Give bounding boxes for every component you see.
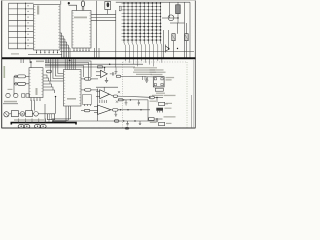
- wire drop b: [34, 101, 36, 111]
- resistor R2: [172, 34, 175, 41]
- resistor R3: [185, 34, 188, 41]
- wire mid right v6: [177, 23, 179, 34]
- text under: [152, 95, 163, 96]
- wire over U5B: [96, 86, 118, 88]
- AC plug P1: [4, 112, 9, 117]
- resistor R15 oval: [113, 109, 119, 112]
- capacitor C10: [125, 100, 128, 105]
- wire bus upper: [60, 51, 194, 53]
- IC U1 pin ticks: [34, 6, 36, 8]
- text right of K1: [166, 77, 175, 78]
- wire U5C out: [111, 109, 150, 111]
- IC U4 bottom pins: [30, 98, 32, 101]
- wire bus thick: [2, 57, 196, 59]
- resistor R9 on bus: [98, 66, 103, 68]
- wire mid right v5: [173, 41, 175, 58]
- circle pin R7: [15, 75, 18, 78]
- text above bar: [14, 119, 44, 120]
- transistor Q1: [166, 45, 170, 53]
- capacitor cans C5 C6 C7 C8b: [18, 124, 24, 128]
- rectifier BR1: [26, 111, 33, 117]
- capacitor C8: [110, 72, 116, 75]
- op-amp U5A: [101, 70, 108, 77]
- IC U2 bottom pins: [73, 48, 75, 51]
- capacitor C13: [139, 121, 141, 125]
- resistor R4 right of U3: [85, 78, 92, 81]
- IC U3 body: [64, 70, 82, 107]
- op-amp U5C inputs: [94, 106, 98, 108]
- staircase wires into U3: [51, 59, 64, 81]
- capacitor C14 gnd: [114, 111, 117, 116]
- wire link right: [147, 100, 149, 121]
- wires power row: [9, 113, 11, 115]
- resistor R13 oval bottom: [114, 120, 119, 122]
- wire vertical net V3: [98, 48, 100, 58]
- border bottom: [2, 127, 196, 129]
- IC U4 top wire: [30, 62, 32, 68]
- wire vertical net V0: [95, 1, 97, 58]
- border top: [2, 0, 196, 2]
- wire U5C v: [97, 89, 99, 122]
- ground G1: [105, 78, 108, 83]
- IC U3 pin ticks: [64, 71, 66, 73]
- wire bus lower5: [45, 66, 135, 68]
- IC U4 pin ticks: [29, 70, 31, 72]
- connector J2 box: [47, 114, 54, 120]
- wire mid right v7: [186, 41, 188, 58]
- wire bundle U1-U3: [61, 33, 63, 58]
- connector P2 oval: [149, 96, 154, 99]
- resistor R10 oval: [116, 75, 121, 77]
- ground G3 under bus: [115, 68, 118, 75]
- text P3: [164, 116, 176, 117]
- wire vertical net V2: [94, 48, 96, 58]
- IC U4 body: [29, 68, 43, 98]
- crystal Y1: [69, 4, 77, 10]
- wire mid right v4: [168, 30, 170, 50]
- op-amp U5B inputs: [96, 90, 100, 92]
- IC U1 right pins: [60, 32, 62, 34]
- IC U2 pin ticks: [72, 12, 74, 14]
- node dot bus: [104, 67, 106, 69]
- text DB1: [165, 108, 172, 109]
- diode matrix D1-D80: [123, 2, 125, 43]
- IC U1 bottom pins: [36, 50, 38, 53]
- dark blob bottom: [125, 127, 130, 130]
- text U6: [166, 103, 172, 104]
- transformer T1 secondary: [34, 112, 39, 117]
- relay K1 box: [153, 77, 164, 87]
- op-amp U5C: [98, 105, 112, 114]
- IC U3 bottom wires: [52, 106, 66, 121]
- wire right v2: [184, 2, 186, 57]
- capacitor C12: [126, 121, 129, 126]
- op-amp U5B: [100, 90, 110, 99]
- wire right v9: [189, 2, 191, 57]
- trimmer marks: [116, 91, 120, 103]
- wire right v1: [169, 2, 171, 18]
- IC U2 right wires: [91, 13, 116, 15]
- IC U4 right fan wires: [43, 75, 47, 78]
- border right inner line 1: [193, 60, 195, 128]
- resistor R14 oval mid: [47, 70, 52, 73]
- capacitor C3 circle: [14, 93, 18, 97]
- dashed separator v1: [122, 62, 124, 128]
- node dot q2: [177, 48, 178, 49]
- node dot mid: [69, 60, 71, 62]
- dashed separator v2: [186, 62, 188, 128]
- transistor Q0 circle: [168, 15, 174, 21]
- component U7: [159, 122, 165, 125]
- small parts right of text: [143, 76, 148, 80]
- capacitor C4 circle: [6, 93, 10, 97]
- wire rail mid: [118, 99, 148, 101]
- wire vertical net V1: [115, 10, 117, 68]
- wire rail bottom: [52, 120, 158, 122]
- terminal stubs: [18, 119, 20, 123]
- dashed separator h1: [123, 61, 187, 63]
- capacitor C9 between: [100, 100, 107, 103]
- text block right: [150, 69, 164, 70]
- text small left: [8, 89, 13, 90]
- circle pin R8: [15, 82, 18, 85]
- wire mid right v8: [186, 23, 188, 34]
- IC U1 label text: [37, 6, 39, 15]
- resistor R7 left of U4: [18, 75, 26, 78]
- text P2: [164, 95, 176, 96]
- wire bus upper left seg: [28, 54, 62, 56]
- small box pair: [22, 94, 25, 97]
- node P3: [156, 118, 157, 119]
- wire stubs under bus: [20, 59, 22, 63]
- text vertical left border: [4, 66, 6, 78]
- text left mid: [4, 101, 17, 103]
- connector P3 box: [149, 118, 154, 121]
- border right: [194, 1, 196, 129]
- wire U5B top drop: [103, 87, 105, 91]
- dark component DB1: [156, 108, 163, 111]
- text on bus left: [11, 53, 19, 54]
- wire R1 bottom: [177, 14, 179, 23]
- IC U2 label text: [74, 17, 87, 19]
- wire top feed: [116, 1, 190, 3]
- node dot right: [177, 17, 178, 18]
- capacitor C11: [138, 100, 140, 106]
- wire right h2: [170, 22, 185, 24]
- wire drop c: [44, 104, 46, 121]
- text block annotations: [133, 67, 157, 68]
- wire bus lower1: [45, 61, 91, 77]
- ground G2: [145, 78, 148, 83]
- resistor R5 right of U3: [85, 89, 92, 92]
- resistor R11 oval: [113, 95, 118, 97]
- power bus bar: [11, 123, 76, 125]
- wire right h1: [162, 17, 178, 19]
- wire into U5A top: [104, 68, 106, 72]
- IC U1 body: [34, 5, 61, 51]
- connector J1 ladder: [9, 2, 34, 4]
- capacitor C2 box: [105, 2, 111, 10]
- op-amp U5A inputs: [96, 71, 101, 73]
- capacitor C1 above U2: [81, 1, 84, 7]
- wire bus lower2: [45, 63, 89, 81]
- border left: [1, 1, 3, 129]
- IC U6A box small: [83, 95, 92, 105]
- wire drop a: [31, 101, 33, 111]
- wire mid right v3: [163, 30, 165, 58]
- text ch2: [150, 122, 157, 123]
- node dot q1: [168, 48, 169, 49]
- wire U1 top stub: [60, 1, 62, 5]
- wires bus to U3 top: [64, 59, 66, 69]
- resistor R1 top right: [176, 5, 181, 14]
- wire bus lower3: [45, 63, 143, 65]
- component under K1: [155, 88, 163, 91]
- resistor small left of matrix: [119, 6, 121, 11]
- resistor R8 left of U4: [18, 82, 26, 85]
- resistor R6 below U3: [84, 109, 90, 112]
- dots rails: [123, 99, 124, 100]
- wire drop d: [55, 97, 57, 114]
- IC U3 label: [67, 98, 76, 100]
- wire left v down: [13, 76, 15, 95]
- IC U4 label: [36, 88, 38, 95]
- resistor R12 box: [119, 99, 123, 101]
- wire R1 top: [177, 2, 179, 5]
- border right inner line 2: [191, 95, 193, 128]
- node P2: [156, 97, 157, 98]
- IC U2 body: [72, 11, 91, 49]
- transformer T1 primary: [20, 112, 25, 117]
- wire bus lower4: [45, 66, 84, 78]
- text under bus: [36, 61, 44, 63]
- diode matrix column drops: [124, 43, 125, 46]
- fuse F1: [11, 111, 18, 117]
- wire left mid h: [3, 103, 18, 105]
- component U6: [159, 102, 165, 105]
